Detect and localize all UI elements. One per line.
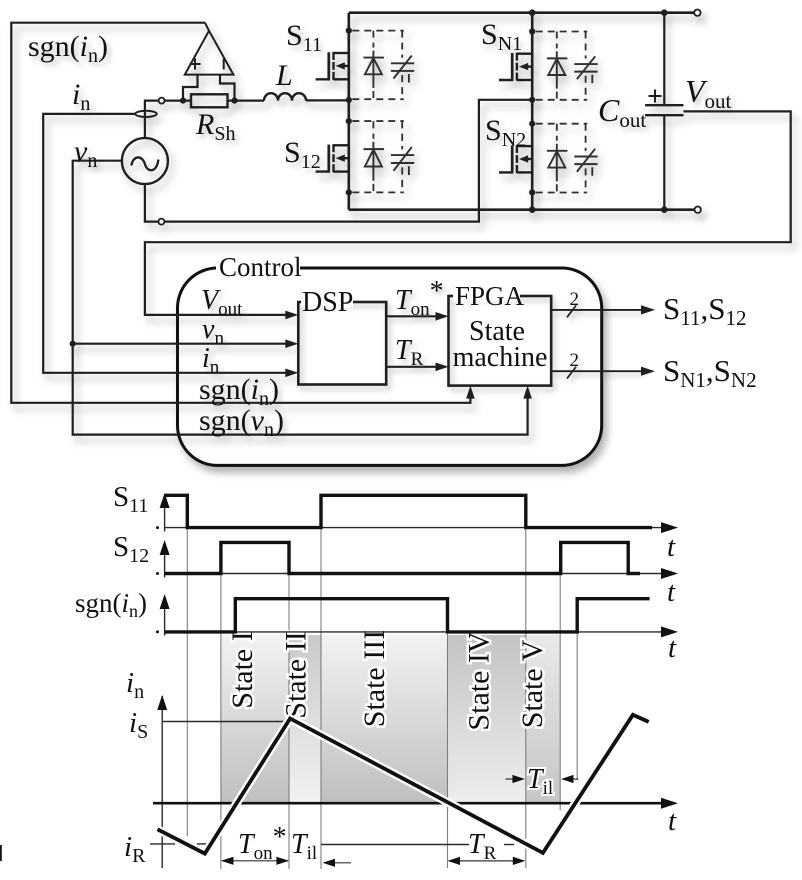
gridlines at switching instants [187,528,577,869]
wire shunt to inductor [228,99,265,101]
bus slash mark bottom [567,367,576,379]
node S12 source [346,189,352,195]
state band II [289,635,321,803]
in waveform white casing [158,715,649,854]
transistor Q SN2 [499,145,532,173]
wire ac top to terminal [145,101,159,138]
wire ac bottom to return terminal [145,184,159,222]
node SN1 drain [529,28,535,34]
svg-text:FPGA: FPGA [455,281,525,311]
op-amp minus input label [223,59,225,70]
thin axes [150,496,662,868]
S11 y-arrow [160,493,170,508]
terminal vout plus [694,10,700,16]
svg-text:State IV: State IV [463,631,496,730]
in zero axis [153,802,662,805]
svg-text:DSP: DSP [302,287,353,318]
wire Ton* DSP to FPGA [386,315,436,317]
Ton* dimension line [222,860,288,862]
bottom rail [349,208,698,211]
op-amp plus input label [190,59,201,70]
wire SN1SN2 output [551,370,642,372]
node bridge midpoint right [529,97,535,103]
resistor RSh [191,94,228,107]
white gap for DSP label [301,295,353,308]
arrowhead vn into DSP [285,339,298,348]
gridline S12 fall 1 [288,542,290,869]
node shunt left [180,98,186,104]
wire return to right leg midpoint [164,100,532,222]
Ton* dimension arrowheads [221,857,234,865]
TR dimension line [449,860,524,862]
wire op-amp plus input to shunt left [183,75,198,101]
transistor Q S12 [316,144,349,172]
node right leg bottom [529,206,536,213]
gridline sgn rise 2 [576,599,578,780]
FPGA box U3 [449,296,552,386]
svg-text:2: 2 [570,289,580,310]
wire vout feedback to control [145,111,791,315]
state band I [221,635,289,803]
capacitor plus sign [649,90,662,103]
node shunt right [231,98,237,104]
in y-arrow [157,695,167,710]
node S11 drain [346,28,352,34]
wire op-amp minus input to shunt right [220,75,235,101]
sgn t-axis [165,631,662,633]
arrowhead Ton* into FPGA [436,312,449,321]
node cout top [661,9,668,16]
svg-text:t: t [668,805,677,837]
wire S11S12 output [551,309,642,311]
sgn(in) waveform [165,599,650,632]
current sensor loop on in wire [135,111,156,117]
DSP box U2 [298,302,386,385]
gridline S11 fall 1 [186,528,188,836]
ac source vn [122,138,168,184]
top rail [349,11,698,14]
svg-text:State II: State II [280,631,313,718]
gridline S12 rise 1 [220,542,222,869]
control block outline [178,268,602,465]
wire TR DSP to FPGA [386,366,436,368]
white gap for FPGA label [453,289,520,302]
svg-text:Control: Control [219,252,302,282]
gridline sgn fall [447,599,449,868]
svg-text:State I: State I [226,631,259,708]
axis origin dot S11 [156,526,159,529]
node SN2 source [529,189,535,195]
S12 y-arrow [160,540,170,555]
arrowhead sgn(in) into FPGA bottom [466,386,475,399]
axis arrowheads [157,493,678,809]
wire in sense to control [43,114,294,373]
wire sgn(in) from comparator output to control input [11,23,470,403]
transistor Q SN1 [499,53,532,81]
circuit text labels [28,18,732,173]
node right leg top [529,9,536,16]
in y-axis [161,696,163,868]
node S12 drain [346,118,352,124]
right leg rail [531,13,534,210]
S11 waveform [165,495,652,527]
S11 t-axis [165,527,662,529]
axis origin dot S12 [156,572,159,575]
S12 waveform [165,542,640,573]
arrowhead SN1SN2 output [641,367,655,376]
state band V [526,635,561,803]
gridline S11 rise [320,528,322,869]
Til left arrow below [326,862,351,864]
gridline S12 rise 2 [559,542,561,810]
S11 t-arrow [661,522,678,533]
waveform text labels [75,481,677,867]
node bridge midpoint left [346,97,352,103]
inductor L [264,93,306,100]
capacitor Cout leads [663,13,665,106]
node cout bottom [661,206,668,213]
gridline S11 fall 2 [525,528,527,868]
body diode cell S12 [352,121,414,192]
svg-text:t: t [667,531,676,563]
wire vn branch to control [73,343,294,345]
gridline sgn rise 1 [234,599,236,635]
sgn y-axis [164,597,166,636]
wire terminal to shunt [165,99,191,101]
sgn y-arrow [160,594,170,609]
S12 t-arrow [661,568,678,579]
in t-arrow [661,798,678,809]
terminal return (open circle) [158,219,164,225]
S12 t-axis [165,573,662,575]
iS level line [163,721,290,723]
body diode cell S11 [352,31,414,100]
in waveform [158,715,649,854]
svg-text:t: t [667,576,676,608]
svg-text:machine: machine [453,342,548,373]
iR level dashes [150,843,175,845]
sgn t-arrow [661,626,678,637]
state band III [321,635,448,803]
svg-text:2: 2 [570,350,580,371]
S12 y-axis [164,543,166,578]
capacitor Cout plates [645,104,683,106]
svg-text:State III: State III [358,630,391,727]
arrowhead TR into FPGA [436,363,449,372]
arrowhead Vout into DSP [285,311,298,320]
body diode cell SN1 [536,32,598,100]
TR dimension arrowheads [448,857,461,865]
left leg rail [347,13,350,210]
svg-text:t: t [668,632,677,664]
arrowhead sgn(vn) into FPGA bottom [523,386,532,399]
svg-text:L: L [275,59,293,92]
upper Til right arrow [506,778,514,780]
wire inductor to bridge midpoint [306,99,349,101]
wire vn sense to control [73,161,528,435]
bus slash mark top [567,306,576,318]
cropped glyph sliver at left edge [0,845,2,861]
op-amp U1 comparator [185,31,234,75]
arrowhead S11S12 output [641,305,655,314]
body diode cell SN2 [536,124,598,193]
terminal vout minus [695,207,701,213]
S11 y-axis [164,496,166,532]
axis origin dot sgn [156,630,159,633]
state band IV [448,635,526,803]
arrowhead in into DSP [285,369,298,378]
node SN2 drain [529,121,535,127]
svg-text:State V: State V [516,639,549,728]
terminal in (open circle) [159,98,165,104]
TR label guide line [321,844,469,846]
upper Til left arrow [573,778,579,780]
transistor Q S11 [316,52,349,80]
node vn branch [70,341,76,347]
